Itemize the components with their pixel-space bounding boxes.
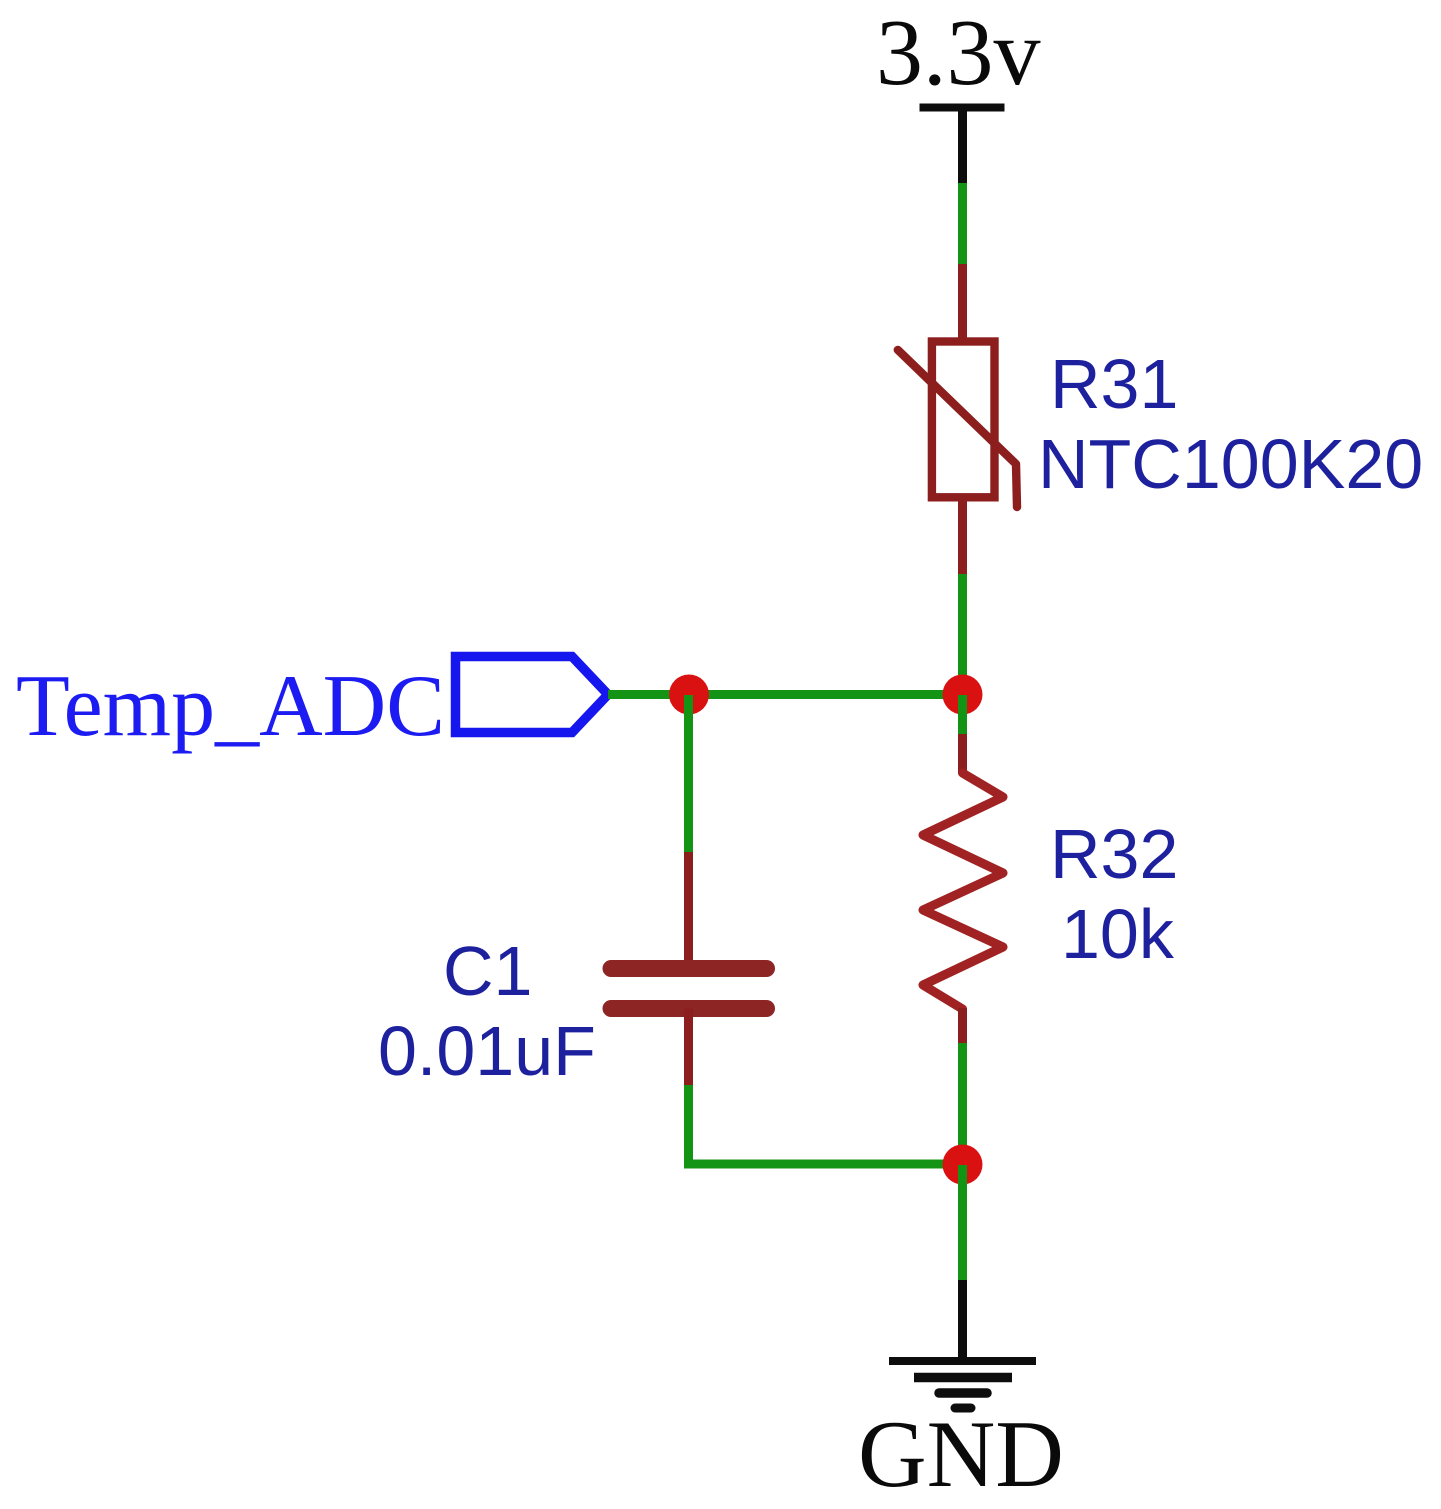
ground symbol [889, 1361, 1036, 1408]
thermistor R31 [898, 342, 1017, 508]
wire green below node [958, 695, 967, 735]
wire pin R32 bottom [958, 1008, 967, 1044]
svg-text:3.3v: 3.3v [876, 1, 1041, 105]
svg-text:C1: C1 [443, 932, 532, 1010]
wire green elbow [689, 1085, 963, 1164]
wire pin R31 bottom [958, 497, 967, 574]
wire green top [958, 183, 967, 265]
flag outline [456, 657, 609, 733]
junction node left [669, 675, 709, 715]
capacitor C1 [611, 969, 767, 1009]
svg-text:GND: GND [858, 1401, 1064, 1507]
wire black ground stem [958, 1280, 967, 1361]
wire Temp_ADC horizontal [608, 690, 963, 699]
wire green to node [958, 574, 967, 695]
wire green to ground [958, 1165, 967, 1281]
svg-text:R32: R32 [1050, 815, 1178, 893]
wire pin R32 top [958, 734, 967, 774]
svg-text:NTC100K20: NTC100K20 [1038, 425, 1423, 503]
svg-text:R31: R31 [1050, 345, 1178, 423]
wire pin C1 top [684, 852, 693, 961]
junction node right [943, 675, 983, 715]
resistor R32 zigzag [923, 773, 1003, 1009]
wire pin R31 top [958, 264, 967, 342]
svg-text:0.01uF: 0.01uF [378, 1012, 596, 1090]
junction node bottom [943, 1145, 983, 1185]
wire pin C1 bottom [684, 1009, 693, 1087]
svg-text:10k: 10k [1061, 895, 1175, 973]
svg-text:Temp_ADC: Temp_ADC [16, 658, 445, 755]
power symbol 3.3v bar [920, 108, 1005, 184]
wire green left branch down [684, 695, 693, 853]
wire green to bottom node [958, 1043, 967, 1165]
